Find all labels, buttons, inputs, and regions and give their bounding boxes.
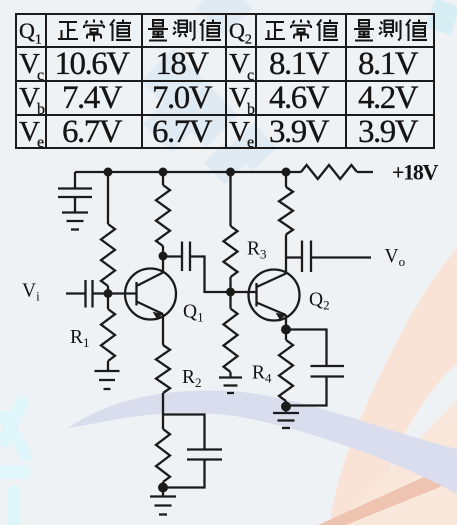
wire : input lead [66,292,85,294]
wire : Q1 collector node to interstage coupling capacitor [163,255,182,257]
node : stage-1 emitter ground node [158,483,168,493]
svg-text:R4: R4 [252,363,272,386]
capacitor : supply filter capacitor [58,172,92,212]
svg-text:Q2: Q2 [309,290,330,313]
node : Q1 collector node [159,252,168,261]
node : rail junction over collector resistor of Q1 [159,168,168,177]
transistor Q2 [249,270,300,321]
capacitor : output coupling capacitor [302,241,311,273]
wire : coupling capacitor to Q2 base node [190,257,231,293]
transistor Q1 [125,269,176,320]
wire : rail down to Q1 collector resistor [162,172,164,185]
resistor : collector resistor of Q2 [279,187,293,235]
svg-text:+18V: +18V [392,160,439,185]
capacitor : stage-1 emitter bypass capacitor [187,450,222,460]
resistor R2 : Q1 emitter resistor [156,345,170,415]
wire : Q2 collector to output coupling capacitor [286,256,302,258]
ground : below supply filter capacitor [62,213,88,230]
ground : below R1 [95,371,120,389]
resistor : upper bias resistor of Q1 [101,224,115,286]
resistor : lower emitter resistor of Q1 [156,415,170,488]
svg-text:Q1: Q1 [183,302,204,325]
wire : bypass capacitor bottom to ground node [163,460,205,488]
wire : rail down to R3 [229,172,231,226]
resistor R4 : Q2 emitter resistor [279,330,293,407]
capacitor : interstage coupling capacitor [182,242,190,272]
node : R4 bottom ground node [281,402,291,412]
wire : Q2 emitter down to emitter node [285,315,287,330]
resistor : lower bias resistor of Q2 [224,292,238,378]
node : Q2 base node [226,288,235,297]
wire : Q2 base wire [231,291,257,293]
wire : bypass capacitor bottom to R4 bottom node [286,377,327,406]
wire : input capacitor to Q1 base node [93,292,109,294]
node : rail junction over bias divider of Q1 [104,168,113,177]
node : Q2 emitter node [281,325,291,335]
svg-text:R1: R1 [70,327,90,350]
ground : below R4 [273,407,299,429]
wire : Q2 collector vertical [285,235,287,274]
wire : rail down to Q2 collector resistor [285,172,287,187]
ground : below Q2 bias divider [219,378,242,394]
resistor : supply decoupling resistor to +18V [301,165,373,179]
wire : Q1 emitter down to R2 [162,314,164,345]
resistor : collector resistor of Q1 [156,185,170,256]
resistor R1 : lower bias resistor of Q1 [101,294,115,372]
resistor R3 : upper bias resistor of Q2 [224,226,238,292]
wire : Q1 base wire [108,292,137,294]
node : Q1 base node [104,289,113,298]
wire : emitter node to Q2 bypass capacitor [286,330,327,367]
capacitor : input coupling capacitor [86,280,93,308]
node : rail junction over R3 [226,168,235,177]
capacitor : Q2 emitter bypass capacitor [311,366,345,377]
ground : stage-1 emitter network ground [150,488,176,515]
wire : upper bias resistor to Q1 base node [107,286,109,294]
svg-text:Vi: Vi [22,281,40,304]
wire : collector node down to Q1 [162,256,164,273]
wire : branch from R2 bottom to stage-1 bypass capacitor [163,415,205,450]
wire : output lead [311,256,371,258]
node : rail junction over collector resistor of Q2 [282,168,291,177]
svg-text:R2: R2 [182,367,202,390]
wire : +18V top supply rail [75,171,301,173]
wire : rail down to Q1 upper bias resistor [107,172,109,224]
svg-text:Vo: Vo [385,246,406,269]
svg-text:R3: R3 [247,239,267,262]
